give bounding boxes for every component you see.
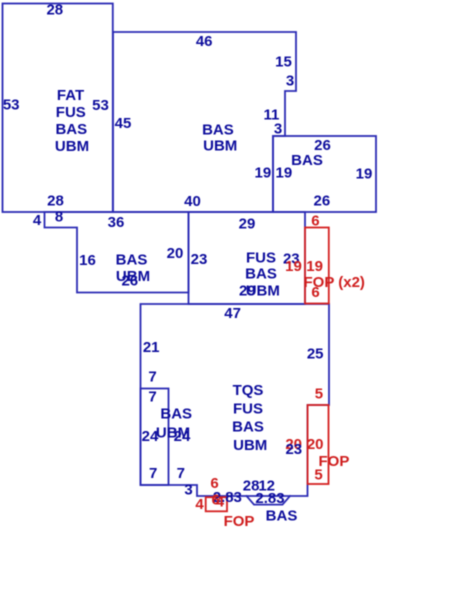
svg-text:19: 19 (255, 164, 272, 181)
area F outline (TQS/FUS/BAS/UBM lower) (141, 304, 330, 496)
svg-text:BAS: BAS (245, 266, 277, 283)
svg-text:3: 3 (274, 121, 282, 138)
svg-text:UBM: UBM (233, 437, 267, 454)
svg-text:5: 5 (315, 386, 323, 403)
svg-text:7: 7 (177, 465, 185, 482)
svg-text:FAT: FAT (57, 87, 84, 104)
svg-text:BAS: BAS (116, 251, 148, 268)
svg-text:36: 36 (108, 214, 125, 231)
svg-text:UBM: UBM (55, 138, 89, 155)
svg-text:FUS: FUS (233, 401, 263, 418)
area B outline (BAS/UBM upper) (113, 32, 296, 212)
svg-text:BAS: BAS (266, 508, 298, 525)
svg-text:26: 26 (121, 272, 138, 289)
svg-text:19: 19 (285, 258, 302, 275)
svg-text:19: 19 (276, 164, 293, 181)
svg-text:6: 6 (311, 213, 319, 230)
svg-text:7: 7 (148, 389, 156, 406)
svg-text:3: 3 (184, 482, 192, 499)
area D outline (BAS/UBM middle-left) (45, 212, 189, 293)
porch FOP bottom outline (206, 497, 227, 511)
area A outline (FAT/FUS/BAS/UBM) (3, 4, 113, 213)
svg-text:UBM: UBM (203, 138, 237, 155)
svg-text:15: 15 (275, 53, 292, 70)
bay window trapezoid (BAS bottom) (247, 496, 291, 505)
area G outline (BAS/UBM small lower-left) (141, 389, 169, 486)
svg-text:26: 26 (314, 193, 331, 210)
svg-text:20: 20 (307, 436, 324, 453)
svg-text:20: 20 (167, 245, 184, 262)
svg-text:BAS: BAS (291, 152, 323, 169)
svg-text:25: 25 (307, 346, 324, 363)
svg-text:19: 19 (306, 258, 323, 275)
svg-text:7: 7 (148, 369, 156, 386)
svg-text:4: 4 (33, 212, 42, 229)
svg-text:24: 24 (174, 428, 191, 445)
svg-text:FOP: FOP (319, 453, 350, 470)
svg-text:8: 8 (55, 209, 63, 226)
svg-text:23: 23 (285, 441, 302, 458)
svg-text:5: 5 (314, 467, 322, 484)
svg-text:53: 53 (3, 97, 20, 114)
porch FOP (x2) outline (305, 228, 329, 304)
svg-text:7: 7 (149, 465, 157, 482)
svg-text:19: 19 (356, 165, 373, 182)
svg-text:2.83: 2.83 (255, 490, 284, 507)
svg-text:24: 24 (142, 428, 159, 445)
svg-text:BAS: BAS (202, 122, 234, 139)
svg-text:28: 28 (46, 1, 63, 18)
svg-text:46: 46 (196, 33, 213, 50)
svg-text:TQS: TQS (233, 382, 264, 399)
svg-text:BAS: BAS (55, 121, 87, 138)
svg-text:BAS: BAS (232, 419, 264, 436)
svg-text:47: 47 (224, 305, 241, 322)
svg-text:23: 23 (191, 251, 208, 268)
area C outline (BAS right) (273, 136, 376, 212)
svg-text:FUS: FUS (56, 104, 86, 121)
svg-text:BAS: BAS (160, 406, 192, 423)
svg-text:4: 4 (195, 496, 204, 513)
svg-text:21: 21 (143, 339, 160, 356)
svg-text:6: 6 (311, 284, 319, 301)
porch FOP right outline (308, 405, 329, 484)
svg-text:53: 53 (92, 97, 109, 114)
svg-text:4: 4 (216, 494, 225, 511)
svg-text:28: 28 (47, 193, 64, 210)
svg-text:FOP: FOP (224, 513, 255, 530)
svg-text:29: 29 (239, 216, 256, 233)
svg-text:FUS: FUS (246, 249, 276, 266)
svg-text:45: 45 (115, 115, 132, 132)
svg-text:3: 3 (286, 72, 294, 89)
svg-text:16: 16 (79, 252, 96, 269)
svg-text:40: 40 (184, 193, 201, 210)
area E outline (FUS/BAS/UBM middle) (189, 212, 306, 304)
svg-text:29: 29 (239, 283, 256, 300)
